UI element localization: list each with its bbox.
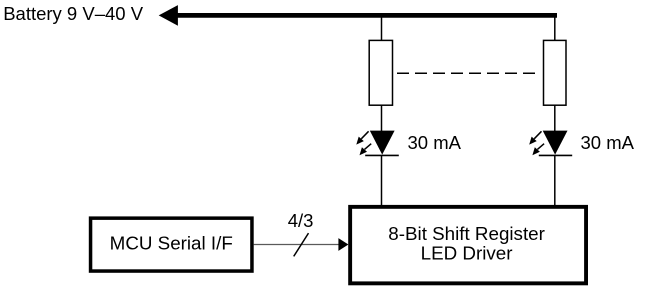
dashed line (repeated branches) between R1 and R2 [397,72,535,74]
svg-text:MCU Serial I/F: MCU Serial I/F [110,232,233,253]
wire: D1 to driver [381,155,383,206]
LED D2 (triangle + cathode bar) [539,131,572,156]
block: 8-Bit Shift Register LED Driver [350,207,586,284]
wire: R2 to D2 [554,105,556,132]
bus-width slash [294,233,309,256]
svg-text:30 mA: 30 mA [408,132,462,153]
svg-text:Battery 9 V–40 V: Battery 9 V–40 V [3,3,144,24]
LED D1 light-emission arrows [356,131,371,155]
resistor R1 [369,40,392,105]
resistor R2 [544,40,567,105]
LED D2 light-emission arrows [529,131,544,155]
svg-text:30 mA: 30 mA [581,132,635,153]
svg-text:8-Bit Shift Register: 8-Bit Shift Register [388,223,545,244]
arrowhead on supply rail pointing left [159,5,178,26]
LED D1 (triangle + cathode bar) [365,131,399,156]
arrowhead into driver [338,238,348,251]
wire: D2 to driver [554,155,556,206]
svg-text:LED Driver: LED Driver [421,243,513,264]
wire: battery supply rail (thick) [174,13,557,18]
svg-text:4/3: 4/3 [288,210,314,231]
wire: rail to R1 [381,15,383,41]
wire: MCU to driver bus [254,244,340,246]
block: MCU Serial I/F [91,218,252,271]
wire: rail to R2 [554,15,556,41]
wire: R1 to D1 [381,105,383,132]
